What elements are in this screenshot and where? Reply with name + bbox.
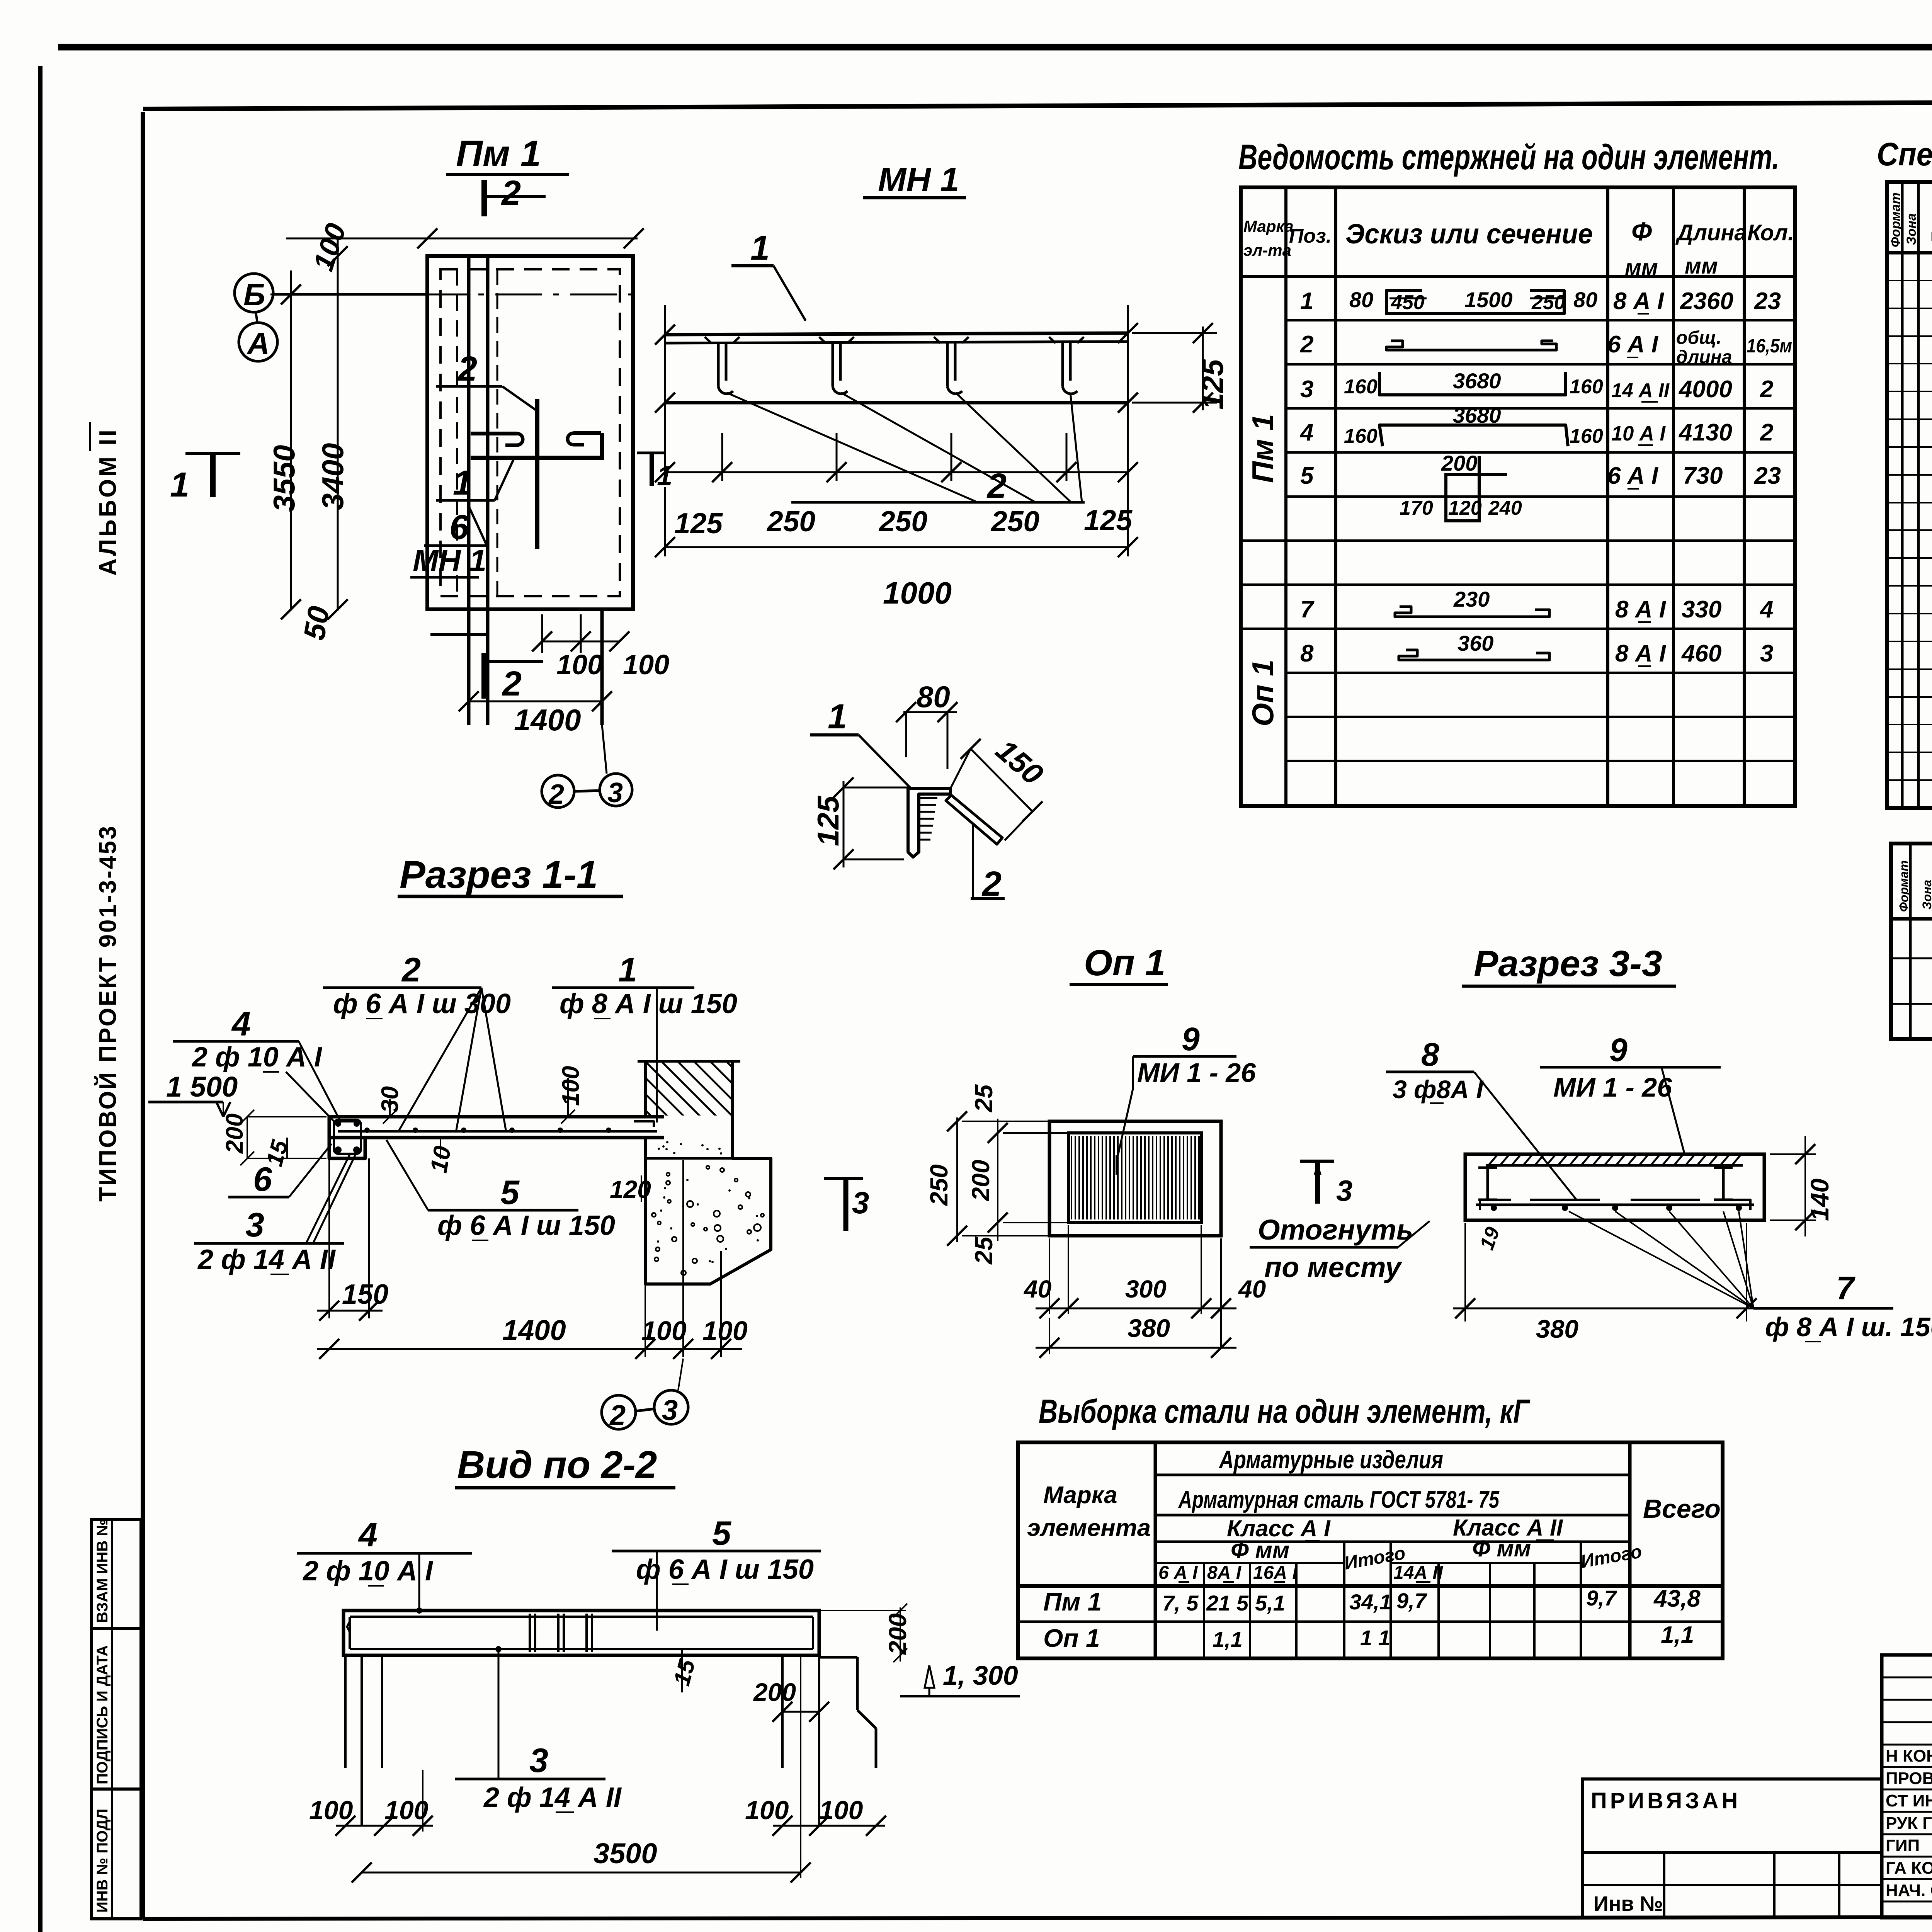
MN1 right dim 125 — [1202, 327, 1204, 410]
svg-text:7: 7 — [1300, 596, 1315, 623]
svg-text:Зона: Зона — [1920, 880, 1932, 910]
bar schedule column lines — [1284, 187, 1287, 806]
svg-text:Инв №: Инв № — [1594, 1892, 1663, 1915]
svg-text:1000: 1000 — [883, 576, 952, 610]
circles 2-3 bottom of plan — [542, 775, 574, 808]
plan right edge extra line — [600, 609, 604, 725]
svg-text:Выборка стали на один элемент: Выборка стали на один элемент, кГ — [1039, 1393, 1531, 1430]
dim 380 bottom — [1464, 1223, 1466, 1321]
svg-text:100: 100 — [745, 1796, 789, 1825]
svg-text:МИ 1 - 26: МИ 1 - 26 — [1137, 1058, 1256, 1088]
svg-text:380: 380 — [1128, 1314, 1170, 1342]
svg-text:23: 23 — [1754, 463, 1781, 489]
bottom bar with hooks — [1476, 1204, 1754, 1206]
svg-text:НАЧ. ОТД: НАЧ. ОТД — [1886, 1881, 1932, 1900]
svg-text:4: 4 — [1299, 419, 1313, 446]
svg-text:250: 250 — [1531, 291, 1565, 314]
Op1 ribbed plate — [1068, 1133, 1201, 1223]
angle cross-section — [908, 788, 951, 857]
svg-text:7, 5: 7, 5 — [1162, 1591, 1199, 1615]
svg-text:120: 120 — [1448, 497, 1482, 519]
svg-text:Ф мм: Ф мм — [1472, 1536, 1531, 1561]
svg-text:3680: 3680 — [1453, 403, 1501, 427]
svg-text:МИ 1 - 26: МИ 1 - 26 — [1553, 1072, 1672, 1102]
svg-text:2: 2 — [457, 350, 477, 388]
svg-text:1,1: 1,1 — [1661, 1622, 1694, 1648]
svg-text:МН 1: МН 1 — [878, 160, 959, 199]
svg-text:Арматурные изделия: Арматурные изделия — [1218, 1445, 1443, 1474]
svg-text:250: 250 — [766, 505, 815, 537]
plan center cross — [535, 399, 539, 549]
svg-text:ТИПОВОЙ ПРОЕКТ 901-3-453: ТИПОВОЙ ПРОЕКТ 901-3-453 — [94, 825, 121, 1202]
steel table outer — [1018, 1442, 1723, 1658]
svg-text:Н КОНТР: Н КОНТР — [1886, 1747, 1932, 1765]
svg-text:Разрез 3-3: Разрез 3-3 — [1474, 943, 1662, 984]
svg-text:Оп 1: Оп 1 — [1246, 660, 1280, 726]
plan bottom dims — [468, 616, 470, 715]
steel table header rows — [1155, 1474, 1630, 1476]
svg-text:1: 1 — [170, 466, 189, 504]
svg-text:450: 450 — [1391, 291, 1425, 314]
margin stamp boxes — [92, 1519, 141, 1919]
svg-text:1, 300: 1, 300 — [943, 1660, 1018, 1690]
svg-text:мм: мм — [1625, 255, 1658, 280]
marka separator — [1241, 539, 1795, 542]
svg-text:Поз.: Поз. — [1289, 225, 1332, 247]
svg-text:9: 9 — [1609, 1032, 1628, 1068]
svg-text:2360: 2360 — [1680, 288, 1733, 315]
svg-text:2: 2 — [548, 779, 564, 810]
left support lines below — [344, 1655, 347, 1768]
svg-text:Пм 1: Пм 1 — [456, 133, 541, 174]
svg-text:3: 3 — [1336, 1175, 1352, 1207]
svg-text:1: 1 — [453, 464, 472, 502]
embedded plate bracket in plan — [471, 456, 604, 460]
svg-text:МН 1: МН 1 — [413, 543, 486, 578]
svg-text:250: 250 — [990, 505, 1039, 537]
svg-text:общ.: общ. — [1676, 328, 1721, 348]
beam outline — [344, 1611, 819, 1655]
svg-text:ф 6 А I ш 150: ф 6 А I ш 150 — [636, 1554, 814, 1585]
svg-text:ПОДПИСЬ И ДАТА: ПОДПИСЬ И ДАТА — [94, 1645, 111, 1784]
svg-text:8 А I: 8 А I — [1615, 640, 1667, 667]
svg-text:150: 150 — [342, 1279, 388, 1310]
elevation 1,300 — [925, 1665, 934, 1688]
svg-text:160: 160 — [1570, 425, 1603, 447]
Op1 outer rect — [1049, 1121, 1221, 1236]
svg-text:100: 100 — [702, 1316, 748, 1346]
svg-text:50: 50 — [297, 604, 336, 643]
svg-text:ф 8 А I ш. 150: ф 8 А I ш. 150 — [1765, 1312, 1932, 1342]
MN1 plate top flange — [665, 333, 1128, 335]
svg-text:6: 6 — [449, 508, 469, 547]
svg-text:Эскиз или сечение: Эскиз или сечение — [1345, 219, 1593, 250]
svg-text:40: 40 — [1238, 1275, 1266, 1303]
svg-text:9,7: 9,7 — [1396, 1588, 1428, 1613]
svg-text:ГА КОНСТ: ГА КОНСТ — [1886, 1859, 1932, 1878]
svg-text:2: 2 — [609, 1399, 626, 1431]
bar schedule outer box — [1241, 187, 1795, 806]
svg-text:1400: 1400 — [514, 703, 581, 737]
svg-text:5: 5 — [712, 1514, 731, 1552]
angle inclined plate — [946, 795, 1002, 844]
svg-text:125: 125 — [674, 507, 723, 539]
svg-text:34,1: 34,1 — [1349, 1590, 1391, 1614]
svg-text:9,7: 9,7 — [1586, 1586, 1617, 1610]
svg-text:Зона: Зона — [1904, 213, 1919, 245]
svg-text:2 ф 14 А II: 2 ф 14 А II — [197, 1244, 336, 1275]
svg-text:1 1: 1 1 — [1360, 1626, 1390, 1650]
bar schedule row lines — [1286, 319, 1795, 321]
svg-text:730: 730 — [1683, 463, 1723, 489]
svg-text:3: 3 — [245, 1206, 264, 1244]
svg-text:Формат: Формат — [1888, 192, 1903, 247]
svg-text:ВЗАМ ИНВ №: ВЗАМ ИНВ № — [94, 1519, 111, 1623]
svg-text:ПРИВЯЗАН: ПРИВЯЗАН — [1591, 1788, 1741, 1813]
svg-text:1,1: 1,1 — [1213, 1627, 1243, 1651]
MN1 bottom line — [665, 401, 1128, 405]
svg-text:330: 330 — [1682, 596, 1721, 623]
svg-text:2: 2 — [501, 174, 521, 213]
svg-text:ф 8 А I ш 150: ф 8 А I ш 150 — [560, 988, 737, 1019]
svg-text:длина: длина — [1676, 347, 1732, 367]
sheet outer top line — [58, 44, 1932, 51]
svg-text:43,8: 43,8 — [1653, 1585, 1701, 1612]
svg-text:Формат: Формат — [1897, 860, 1911, 912]
svg-text:100: 100 — [309, 1796, 353, 1825]
MN1 dim 1000 — [664, 487, 666, 556]
svg-text:25: 25 — [970, 1236, 998, 1265]
svg-text:1: 1 — [657, 461, 672, 492]
svg-text:Пм 1: Пм 1 — [1043, 1587, 1102, 1616]
svg-text:ИНВ № ПОДЛ: ИНВ № ПОДЛ — [94, 1809, 111, 1913]
svg-text:8 А I: 8 А I — [1615, 596, 1667, 623]
svg-text:2: 2 — [1760, 376, 1773, 403]
MN1 anchor hooks — [705, 337, 740, 394]
svg-text:Кол.: Кол. — [1747, 220, 1794, 245]
bar schedule header row — [1241, 275, 1795, 278]
MN1 bottom dim row 125-250-250-250-125 — [664, 410, 666, 481]
svg-text:80: 80 — [917, 680, 950, 714]
svg-text:125: 125 — [1196, 359, 1230, 410]
privyazan box — [1582, 1779, 1882, 1852]
svg-text:360: 360 — [1458, 631, 1493, 655]
svg-text:3500: 3500 — [594, 1837, 657, 1869]
angle weld hatch — [920, 797, 937, 799]
svg-text:АЛЬБОМ II: АЛЬБОМ II — [95, 427, 121, 576]
details table outer — [1891, 844, 1932, 1039]
svg-text:Длина: Длина — [1675, 220, 1747, 245]
svg-text:10 А I: 10 А I — [1611, 422, 1666, 445]
svg-text:16,5м: 16,5м — [1747, 335, 1792, 357]
svg-text:230: 230 — [1453, 587, 1490, 611]
svg-text:3: 3 — [529, 1741, 548, 1779]
steel table subcol lines — [1203, 1563, 1205, 1658]
svg-text:3: 3 — [662, 1394, 678, 1426]
vertical dim lines left of plan — [290, 270, 292, 611]
svg-text:5: 5 — [500, 1173, 520, 1211]
svg-text:Спецификация монолитных констр: Спецификация монолитных конструкций ПМ1 … — [1877, 136, 1932, 172]
angles inside — [1478, 1167, 1497, 1169]
svg-text:1 500: 1 500 — [166, 1071, 238, 1103]
svg-text:2: 2 — [502, 665, 522, 703]
svg-text:4000: 4000 — [1678, 376, 1732, 403]
svg-text:7: 7 — [1836, 1270, 1855, 1306]
stirrups in middle — [529, 1614, 531, 1652]
svg-text:Ф: Ф — [1631, 217, 1652, 246]
svg-text:100: 100 — [641, 1316, 687, 1346]
svg-text:Вид по 2-2: Вид по 2-2 — [457, 1443, 657, 1486]
spec header bottom — [1887, 251, 1932, 255]
svg-text:ГИП: ГИП — [1886, 1836, 1920, 1855]
svg-text:по месту: по месту — [1264, 1251, 1403, 1283]
axis circles B and A — [235, 274, 273, 312]
svg-text:3550: 3550 — [267, 445, 301, 512]
svg-text:6 А I: 6 А I — [1158, 1563, 1198, 1583]
svg-text:Арматурная сталь ГОСТ 5781-: Арматурная сталь ГОСТ 5781- 75 — [1178, 1486, 1500, 1513]
plan outer rectangle — [427, 256, 633, 609]
signature table — [1882, 1655, 1932, 1918]
svg-text:элемента: элемента — [1027, 1515, 1151, 1541]
svg-text:23: 23 — [1754, 288, 1781, 315]
svg-text:6 А I: 6 А I — [1607, 463, 1659, 489]
wall lower part with concrete dots — [645, 1117, 771, 1284]
svg-text:Ф мм: Ф мм — [1231, 1537, 1289, 1563]
svg-text:Всего: Всего — [1643, 1494, 1721, 1524]
svg-text:5,1: 5,1 — [1255, 1591, 1285, 1615]
svg-text:2: 2 — [1300, 331, 1313, 358]
svg-text:ПРОВЕР: ПРОВЕР — [1886, 1769, 1932, 1788]
svg-text:Б: Б — [243, 277, 265, 312]
svg-text:3 ф8А I: 3 ф8А I — [1393, 1075, 1484, 1104]
sheet outer left line — [38, 66, 43, 1932]
section mark 3 on Op1 — [1300, 1160, 1334, 1163]
top plate hatched — [1486, 1164, 1743, 1167]
svg-text:6: 6 — [253, 1160, 272, 1198]
svg-text:40: 40 — [1023, 1275, 1051, 1303]
svg-text:СТ ИНЖ: СТ ИНЖ — [1886, 1791, 1932, 1810]
svg-text:240: 240 — [1488, 497, 1522, 519]
drawing frame left — [141, 112, 145, 1919]
svg-text:4: 4 — [231, 1005, 251, 1043]
drawing frame bottom — [143, 1917, 1932, 1919]
svg-text:Поз: Поз — [1929, 215, 1932, 243]
section mark 2 bottom — [481, 653, 487, 699]
circles 2-3 under section — [602, 1395, 636, 1429]
svg-text:160: 160 — [1344, 425, 1378, 447]
svg-text:эл-та: эл-та — [1243, 241, 1291, 259]
svg-text:14А II: 14А II — [1393, 1563, 1444, 1583]
svg-text:3: 3 — [1760, 640, 1773, 667]
svg-text:8 А I: 8 А I — [1613, 288, 1665, 315]
svg-text:140: 140 — [1805, 1179, 1834, 1221]
svg-text:2 ф 10 А I: 2 ф 10 А I — [191, 1042, 323, 1073]
drawing frame top — [143, 100, 1932, 109]
svg-text:2: 2 — [1760, 419, 1773, 446]
svg-text:Оп 1: Оп 1 — [1084, 942, 1165, 983]
svg-text:4130: 4130 — [1678, 419, 1732, 446]
svg-text:380: 380 — [1536, 1315, 1578, 1343]
svg-text:100: 100 — [558, 1066, 584, 1106]
svg-text:Пм 1: Пм 1 — [1246, 414, 1280, 483]
svg-text:ф 6 А I ш 150: ф 6 А I ш 150 — [437, 1210, 615, 1241]
svg-text:4: 4 — [358, 1515, 378, 1554]
svg-text:3400: 3400 — [316, 443, 350, 510]
MN1 left end ticks — [664, 305, 666, 433]
svg-text:3680: 3680 — [1453, 369, 1501, 393]
section mark 1 left — [185, 452, 240, 455]
MN1 small section mark 1 left — [637, 452, 665, 454]
svg-text:170: 170 — [1400, 497, 1433, 519]
svg-text:125: 125 — [811, 795, 845, 846]
svg-text:100: 100 — [556, 650, 603, 680]
svg-text:Оп 1: Оп 1 — [1043, 1624, 1100, 1652]
svg-text:80: 80 — [1573, 287, 1597, 312]
svg-text:160: 160 — [1570, 376, 1603, 398]
svg-text:А: А — [247, 326, 270, 361]
svg-text:Марка: Марка — [1243, 217, 1294, 235]
svg-text:250: 250 — [925, 1164, 953, 1206]
right support and console — [781, 1655, 784, 1768]
svg-text:Марка: Марка — [1043, 1482, 1117, 1509]
svg-text:Ведомость стержней на один эле: Ведомость стержней на один элемент. — [1238, 138, 1779, 177]
fan lines from leader 2 to slab — [398, 988, 481, 1132]
svg-text:1400: 1400 — [502, 1314, 566, 1346]
left downstand beam — [329, 1115, 365, 1158]
axis dash-dot line horizontal — [270, 294, 638, 296]
svg-text:200: 200 — [753, 1678, 796, 1706]
svg-text:1500: 1500 — [1464, 287, 1513, 312]
svg-text:1: 1 — [1300, 288, 1313, 315]
slab cross-section — [329, 1115, 664, 1119]
svg-text:250: 250 — [878, 505, 927, 537]
svg-text:14 А II: 14 А II — [1611, 379, 1670, 402]
svg-text:Разрез 1-1: Разрез 1-1 — [400, 853, 598, 896]
svg-text:3: 3 — [852, 1185, 869, 1220]
svg-text:3: 3 — [607, 777, 623, 808]
section mark 3 right — [824, 1177, 863, 1180]
svg-text:6 А I: 6 А I — [1607, 331, 1659, 358]
svg-text:РУК ГР: РУК ГР — [1886, 1814, 1932, 1833]
privyazan lower grid — [1582, 1852, 1882, 1918]
svg-text:80: 80 — [1349, 287, 1373, 312]
svg-text:9: 9 — [1182, 1021, 1200, 1057]
svg-text:1: 1 — [828, 697, 847, 736]
svg-text:2: 2 — [401, 951, 421, 989]
thick line above data — [1018, 1584, 1723, 1588]
svg-text:460: 460 — [1681, 640, 1721, 667]
dim 140 right — [1770, 1153, 1816, 1155]
svg-text:300: 300 — [1125, 1275, 1167, 1303]
svg-text:4: 4 — [1759, 596, 1773, 623]
svg-text:100: 100 — [623, 650, 669, 680]
plan vertical strip (channel) — [467, 256, 471, 725]
plan inner dashed outline — [440, 269, 620, 596]
svg-text:3: 3 — [1300, 376, 1313, 403]
svg-text:8: 8 — [1421, 1036, 1439, 1073]
svg-text:16А I: 16А I — [1253, 1563, 1298, 1583]
svg-text:200: 200 — [1441, 451, 1477, 475]
svg-text:160: 160 — [1344, 376, 1378, 398]
svg-text:1: 1 — [618, 951, 637, 989]
svg-text:8А I: 8А I — [1207, 1563, 1242, 1583]
svg-text:8: 8 — [1300, 640, 1314, 667]
svg-text:25: 25 — [970, 1084, 998, 1112]
svg-text:21 5: 21 5 — [1206, 1591, 1249, 1615]
svg-text:5: 5 — [1300, 463, 1314, 489]
svg-text:Отогнуть: Отогнуть — [1258, 1214, 1413, 1246]
svg-text:2 ф 14 А II: 2 ф 14 А II — [483, 1782, 622, 1813]
svg-text:2 ф 10 А I: 2 ф 10 А I — [302, 1556, 434, 1587]
section 3-3 body — [1465, 1154, 1764, 1220]
svg-text:200: 200 — [967, 1160, 995, 1201]
spec table outer — [1887, 182, 1932, 808]
svg-text:100: 100 — [384, 1796, 429, 1825]
svg-text:125: 125 — [1084, 504, 1133, 536]
svg-text:1: 1 — [750, 229, 770, 267]
spec row lines — [1887, 280, 1932, 281]
svg-text:мм: мм — [1685, 253, 1718, 279]
svg-text:120: 120 — [610, 1175, 651, 1203]
dim 1400 + 100 + 100 — [645, 1286, 646, 1357]
